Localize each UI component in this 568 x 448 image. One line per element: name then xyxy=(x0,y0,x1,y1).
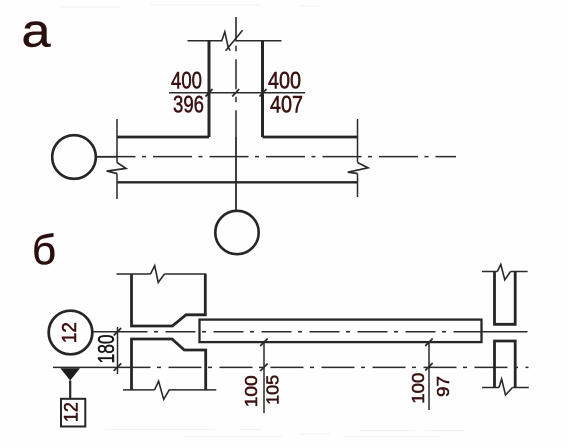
svg-text:100: 100 xyxy=(408,372,428,403)
view triangle marker xyxy=(60,368,80,380)
wire circle connector xyxy=(96,156,117,158)
svg-text:97: 97 xyxy=(433,376,453,397)
wall bottom line xyxy=(117,181,358,183)
beam xyxy=(200,320,482,343)
svg-text:180: 180 xyxy=(93,334,119,363)
tick 180 bottom xyxy=(114,363,122,371)
break symbol left xyxy=(107,163,126,174)
svg-text:б: б xyxy=(32,226,56,273)
mark box 12 xyxy=(61,399,85,427)
svg-text:407: 407 xyxy=(270,92,303,119)
wall axis b xyxy=(53,366,118,368)
svg-text:12: 12 xyxy=(61,402,82,422)
grid circle bottom xyxy=(215,211,258,254)
upper-left wall b xyxy=(132,274,206,326)
lower-left wall b xyxy=(132,339,206,390)
tick beam edge 1 xyxy=(260,339,268,347)
upper-right wall b xyxy=(495,272,516,325)
svg-text:а: а xyxy=(22,5,51,57)
cut line lower-left xyxy=(123,389,216,391)
svg-text:396: 396 xyxy=(173,92,204,119)
dimension line 180 xyxy=(117,327,119,374)
break symbol lower-left xyxy=(155,381,170,399)
wire top cut line xyxy=(188,40,282,42)
left extension line xyxy=(116,119,118,199)
svg-text:105: 105 xyxy=(263,375,283,405)
break symbol lower-right xyxy=(499,379,513,395)
wall top line xyxy=(117,136,358,139)
dim extension line 100/105 xyxy=(263,342,265,413)
tick left xyxy=(206,89,213,97)
tick right xyxy=(260,89,267,97)
beam axis xyxy=(93,331,118,333)
cut line upper-left xyxy=(117,273,207,275)
column wall right edge xyxy=(261,41,264,137)
tick beam edge 2 xyxy=(425,339,433,347)
right extension line xyxy=(357,119,359,197)
break symbol right xyxy=(348,163,368,174)
wall axis horizontal xyxy=(97,156,457,158)
svg-text:100: 100 xyxy=(241,375,261,407)
cut line lower-right xyxy=(482,387,529,389)
dimension line a xyxy=(169,92,305,94)
grid circle left xyxy=(52,135,96,179)
leader line xyxy=(69,381,71,399)
break symbol upper-right xyxy=(497,264,510,279)
tick 180 top xyxy=(114,328,122,336)
column wall left edge xyxy=(208,41,211,137)
node column axis (vertical dash-dot) xyxy=(235,17,237,42)
cut line upper-right xyxy=(482,271,528,273)
svg-text:400: 400 xyxy=(171,68,202,95)
faint artifact marks xyxy=(60,5,465,437)
svg-text:12: 12 xyxy=(59,322,81,343)
dim extension line 100/97 xyxy=(428,342,430,410)
tick wall axis 2 xyxy=(425,363,433,371)
break symbol upper-left xyxy=(151,266,165,283)
grid circle 12 xyxy=(49,311,93,355)
tick wall axis 1 xyxy=(260,364,268,372)
lower-right wall b xyxy=(495,341,516,388)
tick center xyxy=(232,89,239,97)
svg-text:400: 400 xyxy=(268,68,301,95)
break symbol top xyxy=(222,30,243,51)
